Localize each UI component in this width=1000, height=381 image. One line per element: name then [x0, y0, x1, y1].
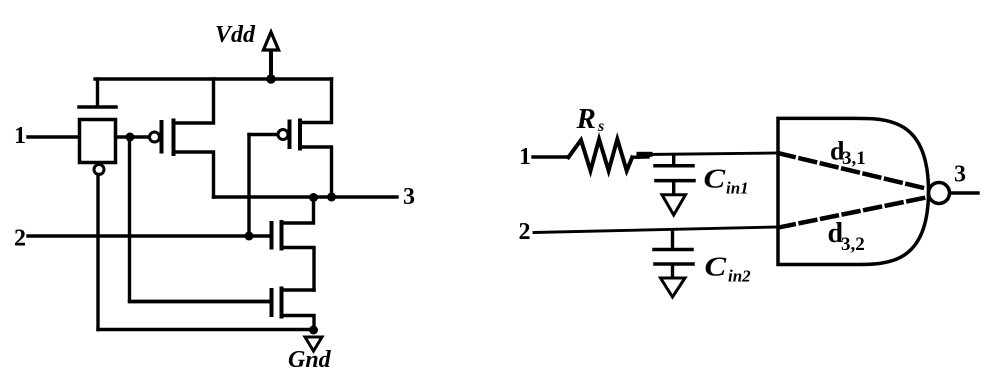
wire N2 gate lead — [130, 300, 272, 303]
svg-text:3,2: 3,2 — [841, 234, 865, 255]
svg-text:1: 1 — [14, 123, 26, 149]
svg-text:2: 2 — [14, 226, 26, 252]
wire output node 3 — [214, 195, 398, 198]
transistor M3 channel — [298, 121, 302, 149]
node A junction dot — [126, 133, 135, 142]
wire N1 drain to output node — [282, 197, 314, 223]
wire thick overlap segment — [639, 152, 650, 157]
wire M2 drain to output — [174, 152, 214, 197]
wire delay d3,2 dashed — [779, 198, 926, 228]
wire output 3 (right) — [950, 191, 978, 194]
transistor M1 gate bar — [79, 105, 116, 109]
node ground junction dot — [309, 326, 318, 335]
wire Vdd top rail — [95, 77, 332, 80]
wire M3 source to rail — [300, 79, 332, 123]
transistor M1 bottom bubble — [94, 165, 104, 175]
svg-text:Vdd: Vdd — [215, 22, 256, 48]
capacitor Cin2 bottom plate — [655, 262, 693, 266]
wire input 2 to NAND — [534, 227, 778, 233]
Vdd power arrow — [263, 32, 278, 79]
svg-text:1: 1 — [519, 144, 531, 170]
capacitor Cin1 bottom stub — [672, 183, 675, 194]
transistor M2 channel — [172, 121, 176, 155]
wire M3 gate — [249, 133, 278, 136]
wire N2 drain lead — [282, 288, 315, 291]
svg-text:3: 3 — [954, 162, 966, 188]
transistor M2 gate bubble — [150, 132, 160, 142]
capacitor Cin1 top stub — [672, 155, 675, 164]
ground symbol Cin1 — [662, 195, 686, 215]
ground symbol Cin2 — [661, 278, 686, 297]
transistor M3 gate bubble — [278, 130, 288, 140]
wire M3 gate down to input 2 — [247, 135, 250, 237]
capacitor Cin2 top plate — [654, 248, 692, 252]
svg-text:R: R — [576, 103, 596, 135]
wire M2 source to rail — [174, 79, 214, 123]
svg-text:in1: in1 — [726, 179, 749, 198]
transistor N2 channel — [280, 289, 284, 317]
svg-text:s: s — [597, 118, 604, 135]
svg-text:C: C — [705, 252, 728, 282]
capacitor Cin1 bottom plate — [656, 179, 694, 183]
wire N2 source to ground — [282, 316, 315, 330]
wire M3 drain to output — [300, 147, 332, 197]
svg-text:C: C — [704, 164, 727, 194]
svg-text:in2: in2 — [728, 267, 751, 286]
wire node to NAND input 1 — [645, 153, 778, 155]
wire delay d3,1 dashed — [779, 153, 926, 188]
svg-text:3: 3 — [403, 184, 415, 210]
gate U1 output bubble — [929, 183, 950, 204]
node Vdd junction dot — [266, 74, 275, 83]
wire M1 bubble down to ground rail — [96, 175, 99, 330]
svg-text:3,1: 3,1 — [842, 148, 866, 169]
transistor M1 body box — [80, 120, 116, 163]
resistor Rs — [568, 139, 632, 171]
capacitor Cin2 bottom stub — [671, 266, 674, 277]
capacitor Cin2 top stub — [671, 230, 674, 248]
node output dot left — [309, 193, 318, 202]
wire input 1 — [28, 135, 79, 138]
wire resistor to capacitor node — [632, 155, 648, 159]
wire input 2 — [28, 234, 271, 237]
transistor M3 gate bar — [288, 122, 292, 148]
transistor N2 gate bar — [270, 290, 274, 315]
wire input 1 to resistor — [533, 155, 568, 158]
transistor N1 channel — [280, 222, 284, 249]
wire ground rail — [98, 328, 314, 331]
node input2 junction dot — [245, 232, 254, 241]
node output dot right — [327, 193, 336, 202]
transistor M2 gate bar — [160, 122, 164, 152]
wire N1 source to N2 drain — [282, 248, 315, 291]
wire box output to M2 gate — [116, 135, 149, 138]
transistor N1 gate bar — [270, 223, 274, 248]
svg-text:Gnd: Gnd — [288, 347, 332, 373]
svg-text:2: 2 — [519, 219, 531, 245]
wire M1 gate to rail — [96, 79, 99, 105]
capacitor Cin1 top plate — [655, 164, 693, 168]
gate U1 NAND body — [778, 118, 929, 264]
wire node A down to N2 gate — [130, 141, 272, 302]
ground symbol — [305, 337, 322, 351]
